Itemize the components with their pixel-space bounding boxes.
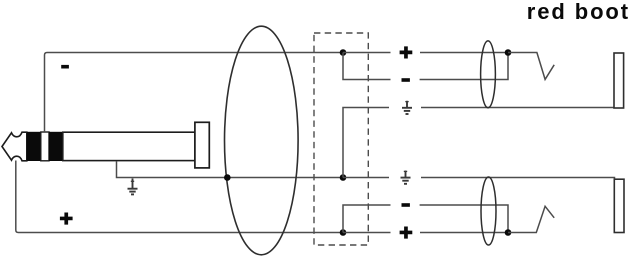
wire bottom minus to tie point: [420, 205, 508, 233]
plug A body: [614, 53, 624, 108]
wire bottom contact with spring kink: [508, 206, 554, 232]
symbol minus bottom channel: [402, 203, 410, 207]
wire sleeve to ground line: [117, 161, 344, 178]
ground symbol top channel (inline): [402, 101, 412, 114]
jack plug J1 ring band 2: [49, 132, 63, 161]
wire bottom ground to plug body: [421, 178, 615, 180]
wire top contact with spring kink: [508, 53, 554, 80]
ground symbol bottom channel (inline): [401, 171, 411, 184]
jack plug J1 tip: [2, 132, 27, 161]
wire top minus to tie point: [420, 53, 508, 80]
wire ring to top line: [45, 53, 344, 133]
node: tip ties to bottom minus: [340, 229, 347, 236]
wire sleeve/ground bottom (box to symbol): [343, 177, 389, 179]
splitter dashed box: [314, 33, 368, 245]
plug A cable ellipse: [481, 41, 496, 108]
jack plug J1 ring contact (white gap): [41, 132, 49, 161]
node: bottom plus/minus tie: [505, 229, 512, 236]
jack plug J1 sleeve barrel: [63, 132, 195, 160]
jack plug J1 collar: [195, 122, 209, 168]
node: ring ties to top minus: [340, 49, 347, 56]
ground symbol left (hanging): [128, 179, 138, 195]
wire bottom plus (box to symbol): [343, 232, 391, 234]
wire bottom plus to plug: [420, 232, 508, 234]
wire top plus (box to symbol): [343, 52, 391, 54]
label plus (tip conductor): [60, 213, 73, 225]
node: top plus/minus tie: [505, 49, 512, 56]
wire sleeve to top ground: [343, 108, 389, 178]
plug B body: [614, 179, 624, 232]
symbol plus bottom channel: [400, 227, 413, 239]
cable jacket big ellipse: [224, 26, 298, 255]
wire top minus drop: [343, 53, 391, 80]
jack plug J1 ring band 1: [27, 132, 41, 161]
wire top plus to plug: [420, 52, 508, 54]
wire bottom minus rise: [343, 205, 391, 233]
symbol plus top channel: [400, 46, 413, 58]
symbol minus top channel: [402, 78, 410, 82]
svg-text:red boot: red boot: [527, 0, 630, 24]
wire tip to bottom line: [16, 161, 343, 233]
node: sleeve split: [340, 174, 347, 181]
plug B cable ellipse: [481, 177, 496, 245]
label minus (ring conductor): [61, 65, 69, 69]
wire top ground to plug body: [421, 107, 614, 109]
junction dot on sleeve at cable entry: [224, 174, 231, 181]
